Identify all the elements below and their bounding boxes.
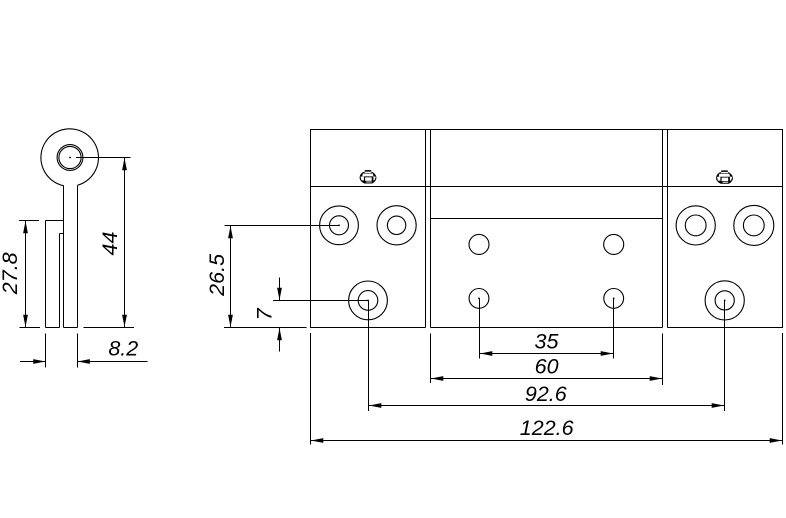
dim 8.2 dimension line left part bbox=[20, 361, 46, 363]
pin middle circle bbox=[57, 145, 83, 171]
hole D inner bbox=[685, 215, 706, 236]
dim 7 arrow lower bbox=[277, 328, 282, 340]
svg-text:35: 35 bbox=[535, 329, 560, 353]
dim 35 arrow left bbox=[480, 351, 492, 356]
dim 60 extension left bbox=[430, 333, 432, 383]
hole F center dot bbox=[724, 300, 726, 302]
dim 122.6 arrow left bbox=[311, 438, 323, 443]
dim 26.5 arrow top bbox=[228, 226, 233, 238]
plate top edge bbox=[310, 129, 783, 131]
hex hole bottom left dot bbox=[478, 298, 480, 300]
dim 8.2 extension left bbox=[45, 333, 47, 367]
dim 27.8 dimension line bbox=[25, 221, 27, 328]
dim 92.6 dimension line bbox=[369, 405, 725, 407]
dim 44 arrow top bbox=[122, 158, 127, 170]
dim 8.2 extension right bbox=[77, 333, 79, 367]
svg-text:60: 60 bbox=[535, 355, 559, 379]
dim 7 leader line bbox=[273, 300, 368, 302]
gap 2 left line bbox=[662, 130, 664, 328]
dim 92.6 arrow left bbox=[369, 403, 381, 408]
svg-text:8.2: 8.2 bbox=[108, 337, 138, 361]
hole E inner bbox=[743, 215, 764, 236]
pin leaf right edge bbox=[77, 185, 79, 327]
dim 7 arrow upper bbox=[277, 288, 282, 300]
hex hole bottom left bbox=[469, 289, 489, 309]
hole C inner bbox=[358, 291, 378, 311]
plate right edge bbox=[782, 130, 784, 328]
hole C center dot bbox=[367, 300, 369, 302]
gap 1 right line bbox=[430, 130, 432, 328]
svg-text:92.6: 92.6 bbox=[525, 382, 567, 406]
dim 7 upper line bbox=[279, 278, 281, 301]
dim 60 arrow right bbox=[650, 376, 662, 381]
nut icon right bbox=[716, 170, 733, 183]
second leaf bottom edge bbox=[46, 327, 60, 329]
dim 26.5 dimension line bbox=[230, 226, 232, 328]
pin leaf bottom edge bbox=[64, 327, 78, 329]
hex hole top left bbox=[469, 234, 489, 254]
knuckle outer circle bbox=[41, 129, 99, 186]
dim 60 arrow left bbox=[431, 376, 443, 381]
dim 8.2 arrow left bbox=[33, 359, 45, 364]
second leaf step edge bbox=[60, 233, 64, 235]
dim 92.6 arrow right bbox=[712, 403, 724, 408]
dim 122.6 arrow right bbox=[770, 438, 782, 443]
dim 44 arrow bottom bbox=[122, 315, 127, 327]
plate left edge bbox=[310, 130, 312, 328]
dim 35 extension right bbox=[613, 298, 615, 358]
dim 26.5 arrow bottom bbox=[228, 315, 233, 327]
hex hole bottom right bbox=[604, 289, 624, 309]
hole F inner bbox=[715, 291, 734, 310]
dim 8.2 dimension line right part bbox=[78, 361, 148, 363]
dim 60 dimension line bbox=[431, 378, 663, 380]
dim 122.6 extension left bbox=[310, 333, 312, 445]
dim 92.6 extension left bbox=[368, 300, 370, 411]
hole A outer bbox=[320, 206, 359, 245]
dim 27.8 arrow top bbox=[23, 221, 28, 233]
dim 60 extension right bbox=[662, 333, 664, 385]
plate bottom edge left section bbox=[310, 327, 426, 329]
dim 26.5 extension bottom bbox=[224, 327, 307, 329]
fold line full width bbox=[310, 186, 783, 188]
plate bottom edge right section bbox=[668, 327, 784, 329]
second leaf inner edge bbox=[59, 234, 61, 328]
hex hole top right bbox=[604, 234, 624, 254]
dim 44 dimension line bbox=[124, 158, 126, 328]
svg-text:7: 7 bbox=[252, 307, 276, 320]
dim 27.8 extension top bbox=[19, 220, 39, 222]
middle plate inner line bbox=[431, 218, 663, 220]
dim 35 arrow right bbox=[601, 351, 613, 356]
dim 35 dimension line bbox=[480, 353, 614, 355]
svg-text:26.5: 26.5 bbox=[205, 253, 229, 297]
hole A center dot bbox=[338, 224, 340, 226]
second leaf left edge bbox=[45, 221, 47, 328]
pin inner circle bbox=[59, 146, 81, 168]
dim 27.8 arrow bottom bbox=[23, 315, 28, 327]
dim 122.6 extension right bbox=[782, 333, 784, 445]
hole A inner bbox=[330, 216, 349, 235]
hole E outer bbox=[734, 205, 774, 245]
gap 2 right line bbox=[667, 130, 669, 328]
dim 44 extension bottom bbox=[84, 327, 134, 329]
hex hole bottom right dot bbox=[613, 298, 615, 300]
pin leaf left edge bbox=[63, 186, 65, 328]
gap 1 left line bbox=[425, 130, 427, 328]
dim 7 lower line bbox=[279, 328, 281, 352]
dim 8.2 arrow right bbox=[78, 359, 90, 364]
dim 27.8 extension bottom bbox=[20, 327, 41, 329]
dim 26.5 leader line bbox=[225, 225, 339, 227]
svg-text:44: 44 bbox=[98, 232, 122, 256]
hole C outer bbox=[349, 281, 388, 320]
second leaf top edge bbox=[46, 220, 64, 222]
hole B outer bbox=[377, 206, 416, 245]
pin center dot bbox=[69, 157, 71, 159]
dim 92.6 extension right bbox=[724, 300, 726, 411]
hole D outer bbox=[676, 206, 715, 245]
hole F outer bbox=[705, 281, 744, 320]
plate bottom edge middle section bbox=[431, 327, 663, 329]
dim 35 extension left bbox=[479, 298, 481, 358]
svg-text:27.8: 27.8 bbox=[0, 252, 22, 295]
svg-text:122.6: 122.6 bbox=[520, 416, 574, 440]
pin center leader line bbox=[76, 157, 131, 159]
hole B inner bbox=[387, 216, 405, 234]
nut icon left bbox=[360, 170, 377, 183]
dim 122.6 dimension line bbox=[311, 440, 783, 442]
